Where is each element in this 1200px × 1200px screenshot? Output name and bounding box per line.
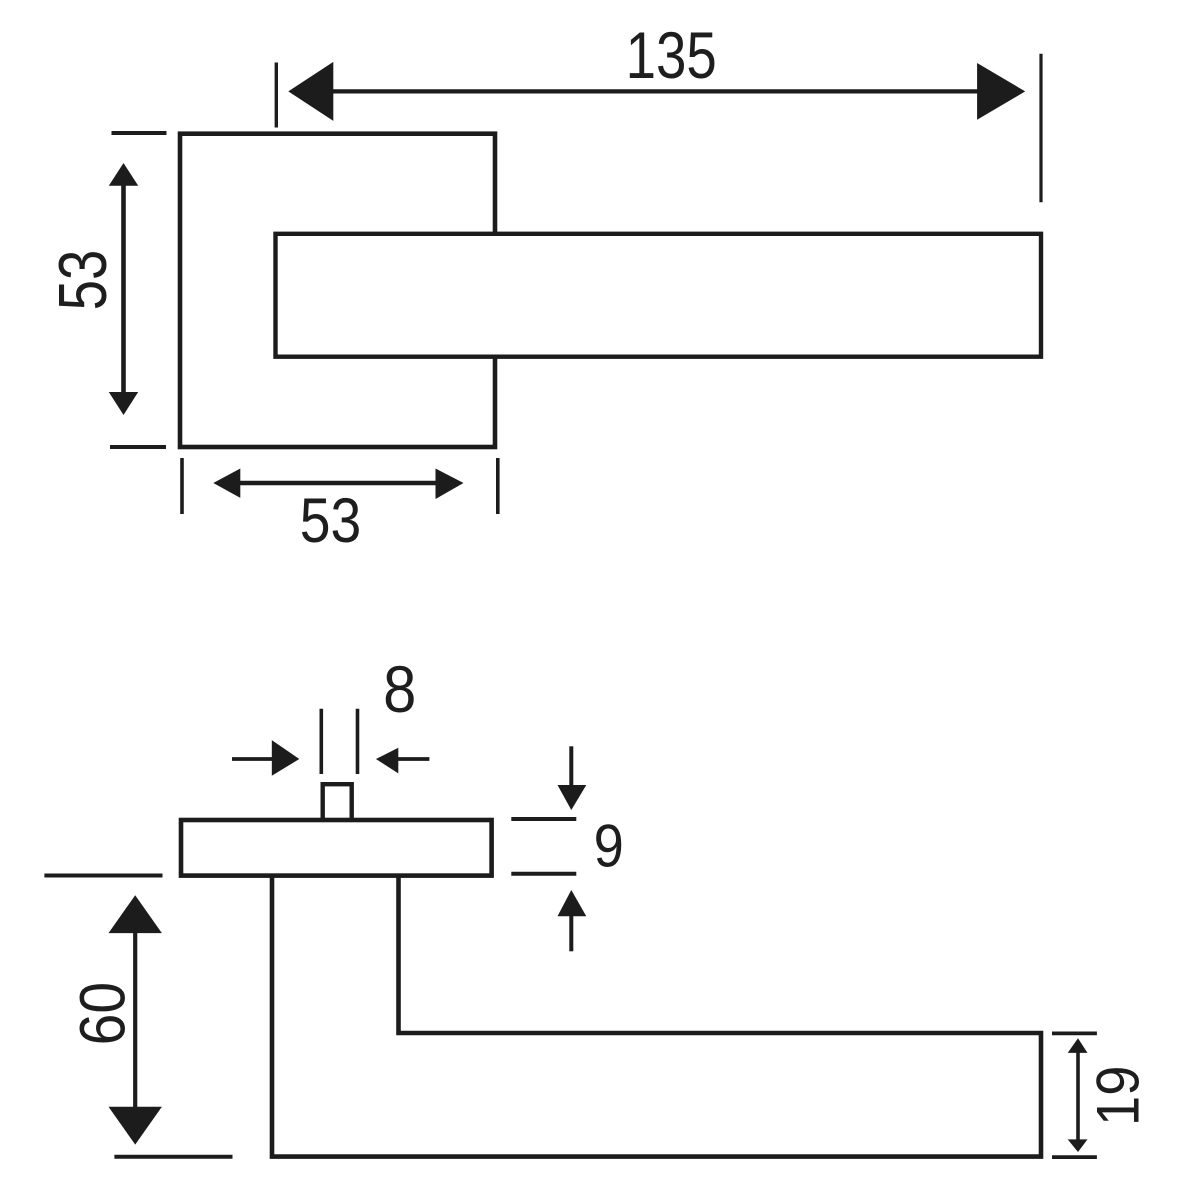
dim 9: up arrow line: [569, 914, 573, 951]
dim 60: bottom tick: [114, 1155, 232, 1159]
dim 60: dimension line: [133, 930, 137, 1110]
svg-text:53: 53: [46, 250, 121, 311]
dim 53 bottom: right arrowhead: [436, 469, 464, 500]
dim 19: bottom tick: [1052, 1155, 1097, 1159]
dim 8: left arrowhead: [272, 740, 300, 776]
svg-text:19: 19: [1085, 1066, 1152, 1126]
dim 53 left: top tick: [112, 131, 167, 135]
dim 19: dimension line: [1076, 1050, 1080, 1141]
spindle neck: [323, 784, 352, 824]
handle profile (side view): [272, 875, 1041, 1157]
dim 53 left: top arrowhead: [109, 163, 138, 186]
dim 60: top tick: [44, 874, 162, 878]
dim 135: left extension tick: [275, 63, 278, 128]
plate body: [181, 820, 492, 876]
square rose (top view): [180, 134, 495, 447]
svg-text:135: 135: [626, 18, 717, 92]
dim 9: down arrowhead: [558, 785, 587, 810]
dim 53 left: bottom tick: [110, 445, 166, 449]
dim 53 bottom: left tick: [180, 458, 184, 514]
dim 9: down arrow line: [569, 746, 573, 787]
svg-text:8: 8: [383, 652, 416, 726]
dim 9: top tick: [511, 817, 576, 821]
dim 60: top arrowhead: [109, 895, 162, 933]
svg-text:9: 9: [594, 812, 624, 879]
dim 60: bottom arrowhead: [109, 1107, 162, 1145]
dim 19: top arrowhead: [1068, 1038, 1088, 1053]
dim 53 bottom: dimension line: [238, 481, 438, 485]
dim 53 bottom: right tick: [496, 458, 500, 514]
dim 8: right tick: [356, 709, 360, 774]
dim 8: right arrow line: [397, 757, 429, 761]
dim 135: left arrowhead: [288, 62, 333, 121]
lever bar (top view): [276, 234, 1042, 357]
dim 8: left arrow line: [232, 757, 273, 761]
dim 9: up arrowhead: [558, 890, 587, 916]
dim 53 left: bottom arrowhead: [109, 392, 138, 415]
dim 135: dimension line: [331, 89, 979, 93]
dim 8: right arrowhead: [376, 748, 398, 774]
dim 135: right extension tick: [1039, 54, 1042, 203]
dim 19: top tick: [1052, 1032, 1097, 1036]
svg-text:53: 53: [300, 486, 362, 556]
dim 19: bottom arrowhead: [1068, 1139, 1088, 1152]
dim 53 left: dimension line: [121, 183, 126, 396]
svg-text:60: 60: [68, 982, 139, 1046]
dim 9: bottom tick: [511, 872, 576, 876]
dim 53 bottom: left arrowhead: [213, 469, 240, 498]
dim 135: right arrowhead: [977, 63, 1025, 120]
dim 8: left tick: [319, 709, 323, 774]
